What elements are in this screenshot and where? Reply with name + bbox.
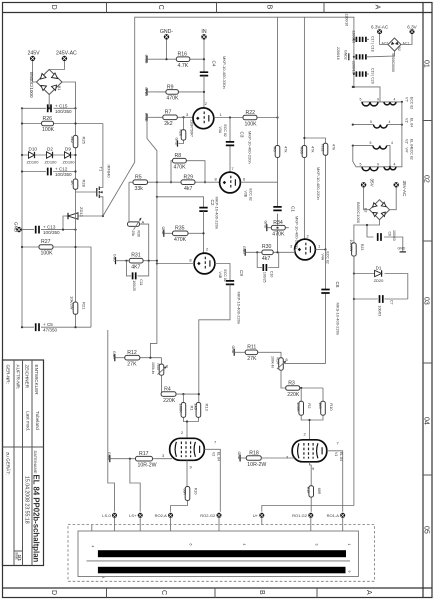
resistor R33 (299, 146, 315, 158)
wire U+ feed (262, 506, 354, 512)
svg-text:R13: R13 (204, 404, 209, 412)
svg-text:V1′: V1′ (405, 118, 409, 123)
svg-text:9: 9 (377, 162, 379, 166)
wires terminals into transformer box (115, 518, 343, 531)
capacitor C13 row (22, 229, 76, 231)
svg-text:9: 9 (377, 97, 379, 101)
svg-text:R25: R25 (82, 137, 87, 145)
terminal 6.3V (407, 25, 417, 35)
svg-text:4.7K: 4.7K (178, 63, 189, 69)
terminal LS+ (129, 513, 143, 518)
gnd stub R17 row (107, 452, 136, 462)
resistor R32 (303, 137, 336, 250)
svg-text:R7: R7 (165, 110, 172, 116)
svg-text:10R-2W: 10R-2W (247, 462, 266, 468)
svg-text:10R-2W: 10R-2W (138, 463, 157, 469)
svg-text:C6: C6 (388, 232, 392, 237)
resistor R23 (349, 240, 364, 257)
svg-text:GND: GND (113, 254, 117, 262)
svg-text:C7: C7 (389, 300, 393, 305)
terminal LS-0 (102, 513, 117, 518)
svg-text:V4′: V4′ (405, 148, 409, 153)
svg-text:6.3V-AC: 6.3V-AC (371, 25, 389, 30)
svg-text:1k5: 1k5 (318, 402, 323, 409)
svg-text:V2′: V2′ (405, 139, 409, 144)
terminal RO1-G2 (292, 513, 313, 518)
wire V4B grid to bus (157, 263, 194, 265)
svg-text:RO1-A: RO1-A (327, 513, 340, 518)
svg-text:100/63: 100/63 (377, 306, 381, 317)
potentiometer P2 (128, 182, 149, 261)
resistor R22 plate row (214, 110, 279, 127)
svg-text:R30: R30 (262, 244, 272, 250)
zener diode D9 (63, 147, 76, 165)
svg-text:1: 1 (347, 544, 351, 546)
svg-text:R29: R29 (184, 175, 194, 181)
resistor R7 (157, 110, 193, 127)
svg-text:100/63: 100/63 (392, 230, 396, 241)
gnd stub R9 row (144, 87, 157, 96)
svg-text:68R: 68R (183, 489, 187, 496)
svg-text:03: 03 (422, 297, 429, 305)
wire R18 to V1 pin3 (261, 457, 294, 459)
svg-text:R4: R4 (164, 387, 171, 393)
svg-text:R36: R36 (136, 231, 140, 237)
gnd stub R35 row (161, 227, 173, 237)
capacitor C7 (377, 295, 393, 316)
wire V3B plate to bus (240, 181, 277, 183)
svg-text:68R: 68R (317, 488, 321, 495)
terminal GND- (160, 29, 174, 40)
svg-text:R27: R27 (41, 239, 51, 245)
resistor R30 (256, 244, 295, 262)
resistor R11 (245, 345, 281, 362)
svg-text:C8: C8 (335, 282, 340, 288)
resistor R35 (173, 226, 205, 243)
svg-text:R6: R6 (273, 147, 278, 153)
svg-text:4k7: 4k7 (262, 256, 270, 262)
svg-text:R31: R31 (131, 253, 141, 259)
bridge rectifier B2 (382, 38, 410, 72)
svg-text:+ C13: + C13 (43, 225, 56, 230)
B+ vertical V3 plate (277, 17, 279, 252)
svg-text:9: 9 (347, 571, 351, 573)
resistor R34 (264, 220, 289, 237)
svg-text:EL 84 PP02b-schaltplan: EL 84 PP02b-schaltplan (32, 475, 41, 563)
svg-text:GND-: GND- (160, 29, 174, 35)
wire C4 to tube (203, 76, 205, 108)
transformer winding bar 1 (98, 550, 346, 557)
triode V4A (290, 234, 330, 264)
terminal 35V-AC (394, 181, 408, 198)
left PSU bus (21, 108, 23, 327)
svg-text:3: 3 (315, 544, 319, 546)
right reference band (423, 3, 432, 598)
resistor R16 (157, 52, 205, 69)
svg-text:15.04.2008 23:55:18: 15.04.2008 23:55:18 (24, 476, 30, 524)
wire bridge bottom vertex down (48, 95, 50, 109)
wire R17 to V2 pin3 (153, 458, 173, 460)
svg-text:Last mod.: Last mod. (26, 411, 31, 431)
heater winding row V3 V4 (353, 102, 414, 171)
svg-text:4k7: 4k7 (184, 186, 192, 192)
resistor R12 (125, 350, 162, 367)
svg-text:C3: C3 (240, 132, 245, 138)
svg-text:6.3V: 6.3V (407, 25, 417, 30)
svg-text:2200/16: 2200/16 (351, 31, 355, 44)
svg-text:V4A: V4A (321, 254, 325, 261)
resistor R8 (170, 153, 206, 183)
wire C9 to output grid network (199, 284, 230, 402)
terminal IN (201, 29, 207, 40)
svg-text:R19: R19 (306, 487, 310, 493)
svg-text:R5: R5 (135, 175, 142, 181)
capacitor C6 (366, 224, 403, 252)
resistor R5 (129, 175, 148, 192)
svg-text:4K7: 4K7 (131, 264, 140, 270)
svg-text:MKP-10-400-220n: MKP-10-400-220n (316, 167, 321, 200)
svg-text:LS-0: LS-0 (102, 513, 111, 518)
terminal GND psu (14, 222, 22, 233)
svg-text:R18: R18 (249, 450, 259, 456)
svg-text:1K: 1K (70, 180, 75, 185)
svg-text:8k2: 8k2 (70, 137, 75, 144)
svg-text:A: A (365, 590, 372, 595)
svg-text:GND: GND (144, 113, 149, 122)
terminal RO1-A (327, 513, 346, 518)
svg-text:100K: 100K (245, 121, 258, 127)
svg-text:05: 05 (422, 526, 429, 534)
capacitor C5 (36, 322, 58, 333)
svg-text:R21: R21 (82, 302, 87, 310)
capacitor C4 (200, 56, 227, 89)
resistor R13 (186, 403, 210, 439)
heater winding row V7 (352, 86, 414, 110)
svg-text:RO2-G2: RO2-G2 (200, 513, 216, 518)
svg-text:R33: R33 (299, 147, 304, 155)
capacitor C8 (284, 250, 340, 364)
resistor R1 (178, 394, 194, 421)
svg-text:100/350: 100/350 (55, 109, 72, 114)
svg-text:B1: B1 (57, 86, 61, 90)
svg-text:IRF840: IRF840 (107, 165, 112, 179)
svg-text:R16: R16 (178, 52, 188, 58)
zener ZD13 (63, 207, 103, 230)
gnd stub R7 row (144, 113, 157, 122)
svg-text:220K: 220K (163, 398, 176, 404)
wire 245V to bridge (33, 61, 37, 82)
triode V3B (215, 166, 253, 201)
svg-text:+ C12: + C12 (55, 167, 68, 172)
svg-text:100/25: 100/25 (132, 280, 136, 291)
svg-text:GND: GND (144, 55, 149, 64)
svg-text:D10: D10 (29, 147, 38, 152)
svg-text:U+: U+ (253, 513, 259, 518)
svg-text:D9: D9 (65, 147, 71, 152)
gnd stub C6 (398, 247, 407, 252)
svg-text:4: 4 (242, 544, 246, 546)
B+ diagonal wire (103, 17, 354, 216)
svg-text:ZD100: ZD100 (27, 160, 40, 165)
terminal 245V-AC (56, 51, 77, 62)
svg-text:IN: IN (201, 29, 206, 35)
cathode resistor R28 V3A (175, 117, 194, 146)
wire bridge to R23 (354, 220, 380, 243)
capacitor C13 (36, 225, 60, 236)
svg-text:B500C/1000: B500C/1000 (29, 72, 34, 98)
svg-text:R2: R2 (307, 403, 312, 409)
zener diode D2 (45, 147, 58, 165)
terminal RO2-A (155, 513, 174, 518)
svg-text:100/25: 100/25 (263, 272, 267, 283)
B+ vertical V4A plate (303, 17, 305, 239)
gnd stub R12 row (112, 351, 125, 361)
resistor R3 (281, 370, 323, 398)
svg-text:2200/16: 2200/16 (345, 14, 349, 27)
svg-text:EL 84: EL 84 (410, 118, 414, 127)
svg-text:RO1-G2: RO1-G2 (292, 513, 308, 518)
svg-text:2k2: 2k2 (164, 121, 172, 127)
svg-text:R34: R34 (273, 220, 283, 226)
transformer pin numbers (91, 544, 352, 579)
svg-text:C17 | C18: C17 | C18 (371, 36, 375, 52)
svg-text:GND: GND (398, 247, 406, 251)
resistor R4 (161, 375, 200, 404)
svg-text:R15: R15 (156, 364, 160, 370)
svg-text:100k-lin: 100k-lin (151, 362, 155, 374)
resistor R10 (308, 388, 334, 440)
svg-text:R9: R9 (167, 84, 174, 90)
resistor R18 (246, 450, 266, 467)
svg-text:470K: 470K (166, 96, 179, 102)
svg-text:4: 4 (394, 162, 396, 166)
node C15 row (22, 107, 76, 109)
svg-text:C2: C2 (210, 200, 215, 206)
wire mosfet source down (102, 199, 104, 216)
resistor R19 cathode V1 (306, 462, 321, 512)
svg-text:R17: R17 (139, 451, 149, 457)
resistor R24 1K (70, 179, 87, 189)
capacitor C7 row (354, 298, 408, 300)
svg-text:470K: 470K (174, 237, 187, 243)
gnd stub R30 row (242, 246, 262, 256)
svg-text:100K: 100K (296, 402, 301, 412)
capacitor C10 (257, 252, 279, 282)
wire V4B plate to C9 (215, 264, 230, 281)
svg-text:04: 04 (422, 417, 429, 425)
svg-text:02: 02 (422, 175, 429, 183)
gnd stub R31 row (113, 254, 130, 264)
svg-text:ZD20: ZD20 (374, 278, 385, 283)
svg-text:100K: 100K (42, 127, 55, 133)
svg-text:B3: B3 (364, 208, 368, 212)
svg-text:ZEICHNER: ZEICHNER (25, 365, 30, 389)
svg-text:D1: D1 (376, 265, 382, 270)
svg-text:GND: GND (264, 221, 268, 229)
svg-text:R20: R20 (194, 488, 198, 494)
svg-text:4: 4 (91, 546, 95, 548)
capacitor C12 (48, 167, 72, 178)
svg-text:R32: R32 (321, 144, 326, 152)
bridge rectifier B1 (29, 70, 62, 98)
capacitor C15 (48, 103, 72, 114)
resistor R17 (129, 451, 157, 468)
svg-text:A: A (142, 220, 145, 225)
svg-text:35V: 35V (370, 179, 375, 188)
bias bus down to U+ row (353, 256, 355, 505)
potentiometer P3 R15 (151, 358, 169, 376)
svg-text:D: D (50, 590, 57, 595)
capacitor C2 (199, 197, 219, 230)
svg-text:V2: V2 (212, 452, 216, 456)
wire V2 pin7 to RO2-G2 (204, 449, 220, 511)
wire 245V-AC to bridge (49, 61, 64, 69)
wire GND- down (166, 40, 168, 60)
svg-text:R26: R26 (43, 116, 53, 122)
capacitor C3 (226, 118, 253, 172)
svg-text:R11: R11 (247, 345, 256, 351)
svg-text:245V: 245V (28, 51, 41, 57)
svg-text:GER-NR:: GER-NR: (6, 365, 11, 384)
capacitor C1 (273, 206, 299, 249)
svg-text:GND: GND (161, 227, 165, 235)
svg-text:245V-AC: 245V-AC (56, 51, 77, 57)
gnd stub R18 row (237, 452, 246, 462)
capacitor C9 (226, 270, 244, 324)
heater supply cap stack C16-C20 (336, 14, 375, 89)
title block grid (3, 360, 44, 566)
svg-text:C1: C1 (291, 206, 296, 212)
zener diode row wire (22, 154, 76, 156)
potentiometer R14 (270, 356, 288, 370)
capacitor C11 (127, 261, 149, 291)
right PSU bus (75, 108, 77, 192)
svg-text:R23: R23 (360, 244, 364, 250)
svg-text:R28: R28 (179, 130, 183, 136)
svg-text:DATEINAME: DATEINAME (33, 451, 38, 474)
terminal 6.3V-AC (371, 25, 389, 35)
svg-text:2200/16: 2200/16 (351, 61, 355, 74)
svg-text:ECC 82: ECC 82 (223, 125, 227, 137)
svg-text:470K: 470K (174, 165, 187, 171)
svg-text:A: A (374, 5, 381, 10)
terminal 35V (361, 179, 375, 188)
svg-text:R22: R22 (246, 110, 256, 116)
wire V1 pin7 to RO1-A (327, 451, 343, 512)
heater winding row V2 (352, 139, 414, 167)
svg-text:RO2-A: RO2-A (155, 513, 168, 518)
svg-text:5: 5 (370, 141, 372, 145)
terminal U+ (253, 513, 265, 518)
wire C2 to V4B grid (203, 211, 205, 253)
svg-text:GND: GND (237, 452, 241, 460)
transformer winding bar 2 (98, 567, 346, 574)
svg-text:4: 4 (101, 577, 105, 579)
resistor R2 (296, 388, 312, 420)
svg-text:V1: V1 (334, 452, 338, 456)
svg-text:zu GERÄT:: zu GERÄT: (6, 452, 12, 475)
svg-text:6: 6 (189, 544, 193, 546)
svg-text:Tubeland: Tubeland (35, 411, 40, 430)
svg-text:AUFTR-NR:: AUFTR-NR: (16, 365, 21, 390)
resistor R6 (273, 146, 289, 158)
svg-text:C: C (160, 590, 167, 595)
svg-text:01: 01 (422, 60, 429, 68)
svg-text:5: 5 (360, 97, 362, 101)
svg-text:R14: R14 (276, 358, 280, 364)
capacitor C5 row (22, 326, 91, 328)
grid row V3B with R5 and R29 (148, 181, 220, 183)
gnd stub R16 row (144, 55, 157, 64)
cathode wire V3B to C2 (157, 197, 204, 207)
svg-text:25k: 25k (131, 231, 135, 237)
svg-text:ENTWICKLER: ENTWICKLER (34, 365, 39, 396)
resistor R25 (70, 135, 87, 147)
svg-text:100K: 100K (41, 251, 54, 257)
svg-text:ECC 82: ECC 82 (249, 189, 253, 201)
svg-text:D2: D2 (47, 147, 53, 152)
svg-text:100k-lin: 100k-lin (270, 356, 274, 368)
terminal 245V (28, 51, 41, 62)
resistor R27 (21, 239, 91, 327)
svg-text:V3B: V3B (244, 191, 248, 198)
psu mid bus (75, 192, 77, 327)
wire bridge right vertex to right bus (62, 82, 76, 108)
resistor R9 (157, 84, 205, 101)
bottom reference band (3, 588, 433, 598)
svg-text:470K: 470K (272, 232, 285, 238)
wires 35V terminals to bridge (364, 188, 397, 210)
svg-text:4: 4 (394, 97, 396, 101)
resistor R20 cathode V2 (171, 460, 198, 511)
svg-text:C: C (157, 5, 164, 10)
svg-text:4: 4 (389, 120, 391, 124)
svg-text:27K: 27K (127, 362, 137, 368)
svg-text:100/350: 100/350 (43, 230, 60, 235)
pentode V2 EL84 (162, 430, 221, 470)
resistor R21 (70, 296, 87, 314)
transformer outline box (78, 531, 358, 577)
wire LS+ to cathode node (130, 459, 140, 512)
svg-text:2200/16: 2200/16 (336, 47, 340, 60)
svg-text:GND: GND (112, 351, 116, 359)
svg-text:ECC 82: ECC 82 (223, 270, 227, 282)
wires 6.3V to bridge (369, 34, 412, 56)
svg-text:ECC 82: ECC 82 (410, 97, 414, 109)
svg-text:10k/2W: 10k/2W (70, 296, 75, 310)
resistor R29 (181, 175, 195, 192)
svg-text:MKP-10-400-220n: MKP-10-400-220n (237, 292, 242, 325)
wire down to mosfet drain (102, 124, 104, 186)
svg-text:35V-AC: 35V-AC (402, 181, 407, 198)
heater winding row V1 (352, 118, 414, 128)
svg-text:100K: 100K (178, 404, 183, 414)
svg-text:V4B: V4B (218, 272, 222, 279)
left gnd bus to LS terminals (108, 330, 115, 512)
svg-text:LS+: LS+ (129, 513, 137, 518)
mosfet T1 (76, 165, 112, 200)
resistor R26 (21, 116, 103, 133)
svg-text:33k: 33k (135, 186, 144, 192)
svg-text:+ C15: + C15 (55, 103, 68, 108)
svg-text:ECC 82: ECC 82 (326, 252, 330, 264)
svg-text:R3: R3 (288, 380, 295, 386)
svg-text:GND2: GND2 (344, 50, 348, 60)
terminal RO2-G2 (200, 513, 221, 518)
svg-text:R8: R8 (175, 153, 182, 159)
svg-text:ZD100: ZD100 (63, 160, 76, 165)
svg-text:GND: GND (175, 138, 179, 146)
